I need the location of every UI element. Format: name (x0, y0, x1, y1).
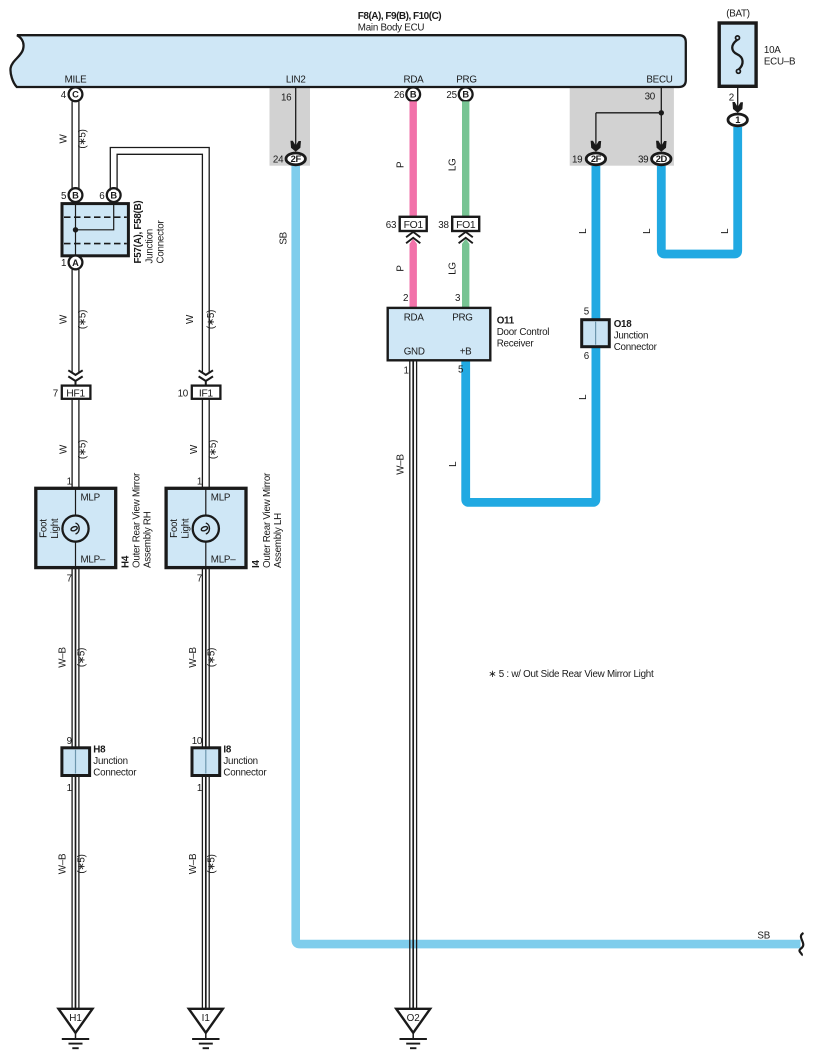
svg-text:O2: O2 (407, 1013, 420, 1024)
svg-text:2: 2 (729, 93, 734, 104)
svg-text:P: P (395, 161, 406, 168)
svg-text:Junction: Junction (614, 331, 649, 342)
svg-text:10: 10 (192, 736, 203, 747)
svg-text:10A: 10A (764, 45, 781, 56)
svg-text:1: 1 (197, 783, 202, 794)
svg-text:O18: O18 (614, 319, 633, 330)
svg-text:SB: SB (278, 231, 289, 244)
svg-text:PRG: PRG (456, 75, 476, 86)
svg-text:(BAT): (BAT) (726, 8, 750, 19)
svg-text:Light: Light (50, 518, 61, 539)
svg-text:(∗5): (∗5) (207, 648, 218, 667)
svg-text:W–B: W–B (188, 853, 199, 874)
svg-text:2D: 2D (656, 153, 668, 164)
svg-text:ECU–B: ECU–B (764, 56, 796, 67)
svg-text:(∗5): (∗5) (207, 854, 218, 873)
svg-text:RDA: RDA (404, 75, 425, 86)
svg-text:RDA: RDA (404, 312, 425, 323)
svg-text:63: 63 (386, 220, 397, 231)
svg-text:L: L (720, 228, 731, 234)
svg-text:F57(A), F58(B): F57(A), F58(B) (133, 201, 144, 264)
svg-text:I4: I4 (251, 560, 262, 568)
svg-text:L: L (578, 394, 589, 400)
svg-text:Junction: Junction (145, 229, 156, 264)
svg-text:Outer Rear View Mirror: Outer Rear View Mirror (132, 472, 143, 568)
svg-text:W: W (59, 444, 70, 454)
svg-text:Foot: Foot (39, 519, 50, 538)
svg-text:1: 1 (67, 783, 72, 794)
svg-text:O11: O11 (497, 315, 515, 326)
svg-text:24: 24 (273, 155, 284, 166)
svg-text:MLP: MLP (81, 492, 101, 503)
svg-text:5: 5 (458, 364, 464, 375)
svg-text:P: P (395, 265, 406, 272)
svg-text:Connector: Connector (614, 342, 658, 353)
svg-text:Junction: Junction (93, 756, 128, 767)
svg-text:SB: SB (757, 931, 770, 942)
svg-text:W: W (59, 314, 70, 324)
svg-text:(∗5): (∗5) (76, 648, 87, 667)
svg-text:LIN2: LIN2 (286, 75, 306, 86)
svg-text:(∗5): (∗5) (76, 854, 87, 873)
svg-text:MLP: MLP (211, 492, 231, 503)
svg-text:W: W (185, 314, 196, 324)
svg-text:Assembly RH: Assembly RH (143, 511, 154, 568)
svg-text:H1: H1 (69, 1013, 82, 1024)
svg-text:2F: 2F (591, 153, 602, 164)
svg-text:(∗5): (∗5) (78, 310, 89, 329)
svg-text:5: 5 (61, 191, 67, 202)
svg-text:(∗5): (∗5) (208, 440, 219, 459)
svg-text:4: 4 (61, 90, 67, 101)
svg-text:HF1: HF1 (66, 389, 85, 400)
svg-text:9: 9 (67, 736, 72, 747)
svg-text:FO1: FO1 (404, 220, 424, 231)
svg-text:Assembly LH: Assembly LH (273, 513, 284, 568)
svg-text:1: 1 (403, 365, 408, 376)
svg-text:(∗5): (∗5) (78, 440, 89, 459)
svg-text:L: L (578, 228, 589, 234)
svg-text:39: 39 (638, 155, 648, 166)
svg-text:26: 26 (394, 90, 405, 101)
svg-text:W–B: W–B (395, 454, 406, 475)
svg-text:IF1: IF1 (199, 389, 214, 400)
svg-text:F8(A), F9(B), F10(C): F8(A), F9(B), F10(C) (358, 11, 442, 22)
svg-text:1: 1 (197, 477, 202, 488)
svg-text:B: B (462, 90, 469, 100)
svg-text:Connector: Connector (223, 767, 267, 778)
svg-text:1: 1 (61, 258, 66, 269)
svg-text:Door Control: Door Control (497, 327, 550, 338)
svg-text:W–B: W–B (188, 647, 199, 668)
svg-text:Junction: Junction (223, 756, 258, 767)
svg-text:+B: +B (460, 346, 472, 357)
svg-text:(∗5): (∗5) (206, 310, 217, 329)
svg-text:MLP–: MLP– (211, 555, 236, 566)
svg-text:B: B (72, 191, 79, 201)
svg-text:Connector: Connector (93, 767, 137, 778)
svg-text:LG: LG (447, 262, 458, 275)
svg-text:W–B: W–B (58, 853, 69, 874)
svg-text:7: 7 (197, 573, 202, 584)
svg-text:A: A (72, 258, 79, 268)
svg-text:H4: H4 (121, 555, 132, 568)
svg-text:I8: I8 (223, 744, 231, 755)
svg-text:W–B: W–B (58, 647, 69, 668)
svg-text:3: 3 (455, 293, 461, 304)
svg-text:38: 38 (438, 220, 449, 231)
svg-text:(∗5): (∗5) (78, 129, 89, 148)
svg-text:6: 6 (99, 191, 105, 202)
svg-text:Receiver: Receiver (497, 338, 535, 349)
svg-text:B: B (110, 191, 117, 201)
svg-text:7: 7 (53, 388, 58, 399)
svg-text:B: B (410, 90, 417, 100)
svg-text:Main Body ECU: Main Body ECU (358, 23, 425, 34)
svg-text:∗ 5 : w/ Out Side Rear View Mi: ∗ 5 : w/ Out Side Rear View Mirror Light (488, 669, 654, 680)
svg-text:BECU: BECU (646, 75, 672, 86)
svg-text:GND: GND (404, 346, 425, 357)
svg-text:19: 19 (572, 155, 582, 166)
svg-text:Light: Light (181, 518, 192, 539)
svg-text:FO1: FO1 (456, 220, 476, 231)
svg-text:LG: LG (447, 159, 458, 172)
svg-text:7: 7 (67, 573, 72, 584)
svg-text:2F: 2F (291, 153, 302, 164)
svg-text:L: L (448, 461, 459, 467)
svg-text:6: 6 (584, 351, 590, 362)
svg-text:I1: I1 (202, 1013, 211, 1024)
svg-text:1: 1 (67, 477, 72, 488)
svg-text:Foot: Foot (169, 519, 180, 538)
svg-text:MLP–: MLP– (81, 555, 106, 566)
svg-text:C: C (72, 90, 79, 100)
svg-text:5: 5 (584, 307, 590, 318)
svg-text:10: 10 (178, 388, 189, 399)
svg-text:W: W (59, 134, 70, 144)
svg-text:MILE: MILE (65, 75, 88, 86)
svg-text:L: L (642, 228, 653, 234)
svg-text:H8: H8 (93, 744, 106, 755)
svg-text:16: 16 (281, 92, 292, 103)
svg-text:1: 1 (735, 114, 740, 125)
svg-text:25: 25 (446, 90, 457, 101)
svg-text:W: W (189, 444, 200, 454)
svg-text:Outer Rear View Mirror: Outer Rear View Mirror (262, 472, 273, 568)
svg-text:30: 30 (645, 91, 656, 102)
svg-text:2: 2 (403, 293, 408, 304)
svg-text:Connector: Connector (156, 220, 167, 264)
svg-text:PRG: PRG (452, 312, 472, 323)
